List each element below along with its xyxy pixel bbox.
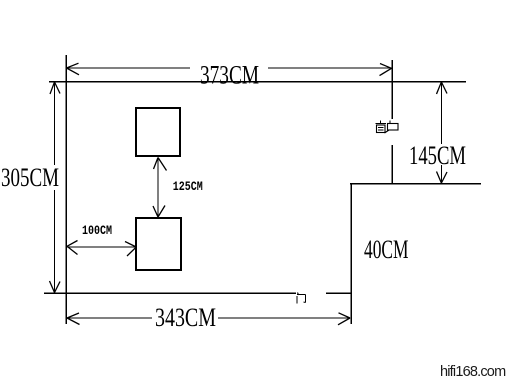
node dimension 125CM between speakers (153, 158, 167, 218)
wire step horizontal (350, 183, 481, 185)
wire left wall (65, 55, 67, 324)
speaker box 2 (136, 218, 181, 270)
wire window wall lower (391, 145, 393, 184)
wire right step vertical (350, 184, 352, 324)
node dimension 145CM right (437, 82, 448, 183)
svg-text:125CM: 125CM (173, 179, 203, 194)
svg-text:373CM: 373CM (200, 61, 259, 90)
wire top wall (49, 81, 466, 83)
node window label 窗户 (376, 121, 399, 134)
svg-text:100CM: 100CM (82, 223, 112, 238)
node dimension 100CM to wall (67, 241, 145, 258)
wire window wall upper (391, 60, 393, 119)
svg-text:40CM: 40CM (364, 236, 409, 265)
speaker box 1 (136, 108, 180, 156)
svg-text:305CM: 305CM (1, 164, 59, 193)
svg-text:145CM: 145CM (409, 141, 466, 170)
svg-text:343CM: 343CM (155, 304, 216, 333)
node dimension 373CM top (67, 63, 392, 75)
svg-text:hifi168.com: hifi168.com (440, 364, 506, 380)
wire bottom wall left segment (44, 292, 296, 294)
wire bottom wall right segment (326, 292, 351, 294)
node door label 门 (297, 293, 306, 304)
node dimension 343CM bottom (67, 313, 350, 325)
node dimension 305CM left (50, 82, 61, 293)
